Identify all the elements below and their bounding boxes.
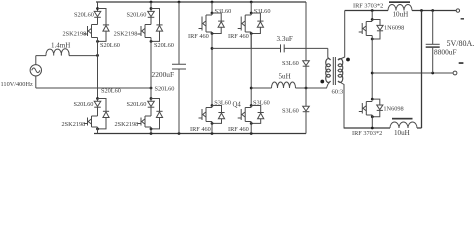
svg-text:2SK2198: 2SK2198: [63, 31, 87, 38]
transistor 2SK2198 (bottom cell) leg1: [84, 116, 98, 127]
node split bottom cell x=151 leg2: [150, 97, 153, 100]
svg-text:5uH: 5uH: [279, 73, 291, 81]
wire antiparallel branch leg1: [98, 9, 107, 42]
node bottom bus junction: [371, 127, 374, 130]
svg-text:2SK2198: 2SK2198: [114, 31, 138, 38]
capacitor C3 8800uF: [432, 11, 434, 74]
inductor L4 10uH: [390, 122, 417, 128]
diode S3L60 clamp lower: [303, 106, 310, 111]
wire drain jog inverter leg2: [250, 106, 252, 108]
node top bus at output capacitor: [431, 9, 434, 12]
svg-text:Q4: Q4: [233, 101, 242, 108]
node bottom of bottom cell inverter leg2: [250, 122, 253, 125]
wire drain jog inverter leg1: [211, 13, 213, 15]
wire diode to MOSFET drain leg2: [150, 17, 152, 24]
node AC bottom at leg2: [150, 87, 153, 90]
svg-text:10uH: 10uH: [393, 10, 409, 18]
diode S3L60 antiparallel (top cell) inverter leg2: [257, 20, 263, 22]
diode 1N6098 top: [377, 25, 383, 30]
wire sync bottom diode branch: [372, 99, 380, 117]
terminal output negative: [453, 71, 457, 75]
wire secondary top lead: [338, 11, 345, 61]
node bottom of top cell inverter leg2: [250, 32, 253, 35]
node DC+ at inverter leg1: [211, 1, 214, 4]
diode S20L60 series (top cell) leg2: [148, 11, 155, 16]
svg-text:S3L60: S3L60: [254, 8, 271, 15]
core bar of L4: [392, 118, 413, 120]
wire antiparallel branch leg2: [151, 9, 160, 42]
capacitor C2 3.3uF: [281, 44, 285, 52]
transistor 2SK2198 (bottom cell) leg2: [138, 116, 152, 127]
inductor L3 10uH: [388, 5, 412, 11]
wire clamp leg middle: [305, 66, 307, 106]
inductor L2 5uH: [272, 82, 296, 88]
svg-text:1N6098: 1N6098: [383, 106, 403, 113]
svg-text:IRF 3703*2: IRF 3703*2: [353, 2, 383, 9]
svg-text:S20L60: S20L60: [155, 85, 175, 92]
node top bus at feed vertical: [420, 9, 423, 12]
node DC- at inverter leg1: [211, 132, 214, 135]
node split bottom cell x=251.2 inverter leg2: [250, 104, 253, 107]
wire leg drop from DC+ leg2: [150, 2, 152, 11]
svg-text:S20L60: S20L60: [100, 42, 120, 49]
svg-text:IRF 3703*2: IRF 3703*2: [352, 130, 382, 137]
svg-text:S20L60: S20L60: [127, 101, 147, 108]
node DC+ at bus capacitor: [178, 1, 181, 4]
wire drain jog inverter leg1: [211, 106, 213, 108]
svg-text:S20L60: S20L60: [74, 12, 94, 19]
node primary polarity dot: [320, 80, 324, 84]
svg-text:S20L60: S20L60: [101, 88, 121, 95]
node sync top source: [371, 38, 374, 41]
wire AC top to leg1: [36, 55, 98, 57]
terminal output positive: [456, 9, 459, 12]
wire cell to DC- inverter leg2: [250, 122, 252, 134]
svg-text:IRF 460: IRF 460: [228, 126, 249, 133]
wire cell to midpoint inverter leg2: [250, 32, 252, 48]
wire sync leg middle: [371, 36, 373, 100]
wire sync top drain: [371, 11, 373, 20]
transformer T1 core: [333, 57, 335, 85]
node bottom of bottom cell inverter leg1: [211, 122, 214, 125]
diode S3L60 antiparallel (top cell) inverter leg1: [218, 20, 224, 22]
transistor 2SK2198 (top cell) leg1: [84, 25, 98, 38]
diode antiparallel (bottom cell) leg2: [156, 110, 162, 112]
svg-text:S3L60: S3L60: [215, 8, 232, 15]
node bottom of top cell leg2: [150, 40, 153, 43]
node sync bottom source: [371, 115, 374, 118]
wire cell to DC- leg1: [97, 127, 99, 134]
svg-text:S20L60: S20L60: [154, 42, 174, 49]
node split top cell x=251.2 inverter leg2: [250, 12, 253, 15]
transformer T1 primary winding: [326, 59, 331, 83]
node bottom of top cell inverter leg1: [211, 32, 214, 35]
svg-text:8800uF: 8800uF: [434, 47, 457, 56]
diode S20L60 series (bottom cell) leg1: [94, 101, 101, 106]
node DC- at rectifier leg2: [150, 132, 153, 135]
wire AC source bottom lead: [35, 76, 37, 88]
transistor IRF3703 top: [359, 22, 373, 36]
AC source G1 110V/400Hz: [30, 65, 41, 76]
diode antiparallel (bottom cell) leg1: [103, 110, 109, 112]
svg-text:1N6098: 1N6098: [384, 24, 404, 31]
core bar of L3: [389, 1, 410, 3]
svg-text:S3L60: S3L60: [282, 108, 299, 115]
wire inverter leg1 midpoint down: [211, 48, 213, 105]
wire cell to midpoint inverter leg1: [211, 32, 213, 48]
wire antiparallel branch inverter leg1: [212, 13, 221, 34]
svg-text:110V/400Hz: 110V/400Hz: [1, 81, 34, 88]
node clamp at tank lower: [305, 87, 308, 90]
svg-text:IRF 460: IRF 460: [188, 33, 209, 40]
label minus sign: [459, 62, 464, 64]
wire cell to DC- leg2: [150, 127, 152, 134]
wire output bottom bus: [344, 127, 422, 129]
svg-text:1.4mH: 1.4mH: [51, 41, 70, 49]
wire leg drop from DC+ inverter leg2: [250, 2, 252, 13]
wire secondary bottom lead: [338, 81, 372, 128]
svg-text:10uH: 10uH: [394, 129, 410, 137]
diode S20L60 series (top cell) leg1: [94, 11, 101, 16]
wire diode to MOSFET drain leg2: [150, 99, 152, 117]
transistor 2SK2198 (top cell) leg2: [138, 25, 152, 38]
node tank at inverter leg1: [211, 47, 214, 50]
wire leg2 midpoint down: [150, 41, 152, 98]
node bottom of bottom cell leg1: [96, 127, 99, 130]
label plus sign: [461, 18, 464, 20]
wire feed vertical to top bus: [421, 11, 423, 129]
svg-text:2SK2198: 2SK2198: [62, 121, 86, 128]
wire leg1 midpoint down: [97, 55, 99, 98]
transistor IRF460 (top cell) inverter leg1: [199, 15, 213, 32]
node top bus at sync MOSFET: [371, 9, 374, 12]
wire antiparallel branch inverter leg2: [251, 13, 260, 34]
transistor IRF460 (bottom cell) inverter leg1: [199, 108, 213, 122]
wire sync source to bottom bus: [371, 115, 373, 128]
node split bottom cell x=97.5 leg1: [96, 97, 99, 100]
svg-text:3.3uF: 3.3uF: [277, 35, 293, 43]
diode antiparallel (top cell) leg1: [103, 24, 109, 26]
diode S3L60 clamp upper: [303, 61, 310, 66]
diode S3L60 antiparallel (bottom cell) inverter leg2: [258, 112, 264, 114]
wire antiparallel branch leg1: [98, 99, 107, 129]
wire tank lower: [251, 81, 330, 88]
wire output minus: [372, 72, 453, 74]
wire tank upper: [212, 47, 328, 49]
svg-text:S20L60: S20L60: [74, 101, 94, 108]
node sync bottom cell split: [371, 98, 374, 101]
wire cell to DC- inverter leg1: [211, 122, 213, 134]
transistor IRF3703 bottom: [359, 102, 373, 116]
wire inverter leg2 midpoint down: [250, 34, 252, 106]
transformer T1 secondary winding: [338, 59, 343, 83]
node bottom of top cell leg1: [96, 40, 99, 43]
diode S20L60 series (bottom cell) leg2: [148, 101, 155, 106]
diode S3L60 antiparallel (bottom cell) inverter leg1: [218, 112, 224, 114]
node secondary polarity dot: [346, 58, 350, 62]
wire AC bottom to leg2: [36, 87, 151, 89]
wire antiparallel branch inverter leg2: [251, 106, 261, 124]
wire cell to midpoint leg1: [97, 38, 99, 56]
wire DC- bottom rail: [94, 133, 306, 135]
wire antiparallel branch leg2: [151, 99, 160, 129]
wire tank corner to primary: [328, 48, 331, 60]
node split bottom cell x=212 inverter leg1: [211, 104, 214, 107]
svg-text:2200uF: 2200uF: [152, 70, 175, 79]
capacitor C1 2200uF: [178, 2, 180, 134]
diode antiparallel (top cell) leg2: [156, 24, 162, 26]
node split top cell x=212 inverter leg1: [211, 12, 214, 15]
wire diode to MOSFET drain leg1: [97, 99, 99, 117]
inductor L1 1.4mH: [46, 49, 69, 56]
node sync top cell split: [371, 18, 374, 21]
node DC+ at rectifier leg2: [150, 1, 153, 4]
node bottom of bottom cell leg2: [150, 127, 153, 130]
node split top cell x=97.5 leg1: [96, 7, 99, 10]
transistor IRF460 (bottom cell) inverter leg2: [238, 108, 252, 122]
wire AC source top lead: [35, 56, 37, 65]
wire antiparallel branch inverter leg1: [212, 106, 222, 124]
wire sync top diode branch: [372, 20, 380, 40]
node minus wire at capacitor: [431, 72, 434, 75]
wire cell to midpoint leg2: [150, 38, 152, 56]
wire DC+ top rail: [96, 1, 306, 3]
node split top cell x=151 leg2: [150, 7, 153, 10]
node DC- at bus capacitor: [178, 132, 181, 135]
diode 1N6098 bottom: [377, 105, 383, 110]
wire leg drop from DC+ leg1: [97, 2, 99, 11]
node output minus branch: [371, 72, 374, 75]
node DC- at inverter leg2: [250, 132, 253, 135]
svg-text:IRF 460: IRF 460: [190, 126, 211, 133]
wire clamp leg lower: [305, 112, 307, 134]
svg-text:IRF 460: IRF 460: [228, 33, 249, 40]
node DC+ at inverter leg2: [250, 1, 253, 4]
svg-text:S3L60: S3L60: [282, 60, 299, 67]
wire clamp leg upper: [305, 2, 307, 61]
svg-text:60:3: 60:3: [332, 88, 344, 95]
node tank at inverter leg2: [250, 87, 253, 90]
wire drain jog inverter leg2: [250, 13, 252, 15]
node AC top at leg1: [96, 54, 99, 57]
svg-text:2SK2198: 2SK2198: [115, 121, 139, 128]
wire output top bus: [345, 10, 457, 12]
wire diode to MOSFET drain leg1: [97, 17, 99, 24]
transistor IRF460 (top cell) inverter leg2: [238, 15, 252, 32]
wire leg drop from DC+ inverter leg1: [211, 2, 213, 13]
svg-text:S20L60: S20L60: [127, 12, 147, 19]
